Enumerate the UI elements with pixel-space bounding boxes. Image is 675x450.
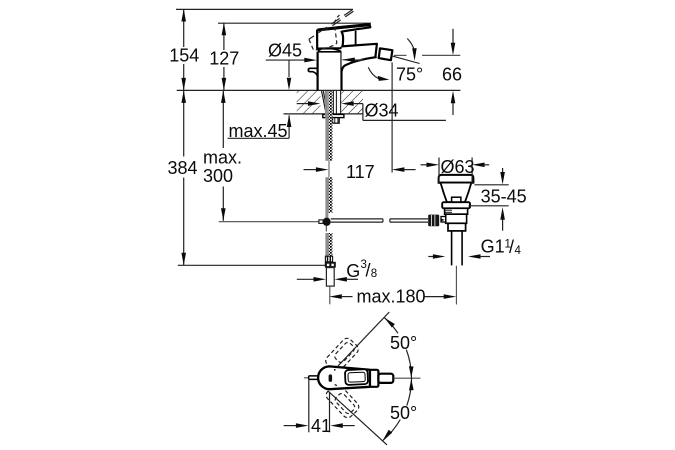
svg-text:75°: 75° xyxy=(396,64,423,84)
svg-text:8: 8 xyxy=(371,268,377,280)
svg-text:/: / xyxy=(366,261,371,281)
flow direction arc arrow under spout xyxy=(368,67,389,81)
bottom view: angle arc segments xyxy=(383,317,412,440)
braided hose segment 3 xyxy=(325,233,328,256)
dimension max.180 xyxy=(329,294,456,299)
ball joint link block xyxy=(319,220,323,224)
bottom view: pivot slot xyxy=(329,374,333,382)
dimension 384 xyxy=(181,90,186,265)
hose break centerline xyxy=(328,161,330,177)
bottom view: arc end arrowhead lower xyxy=(383,430,392,441)
bottom view: lever window outer xyxy=(345,369,368,385)
centerline below ball xyxy=(325,226,327,232)
mounting washer xyxy=(323,114,344,117)
bottom view: dashed handle position lower xyxy=(324,382,361,419)
bottom view: centerline left xyxy=(304,377,309,379)
horizontal actuating rod left segment xyxy=(331,219,383,222)
mounting nut xyxy=(333,118,340,124)
svg-text:154: 154 xyxy=(169,46,199,66)
dimension G3/8 xyxy=(297,277,358,282)
extension line waste centerline xyxy=(455,266,457,305)
bottom view: 50° line lower xyxy=(328,391,387,445)
faucet: body column xyxy=(318,52,342,91)
faucet: raised handle edge double dashed xyxy=(309,10,354,40)
svg-text:/: / xyxy=(509,237,514,257)
svg-text:4: 4 xyxy=(515,245,522,257)
reference line 127 level xyxy=(218,22,371,24)
extension line from aerator down xyxy=(391,62,393,172)
faucet: dashed raised-handle outline xyxy=(309,15,340,50)
faucet: aerator square xyxy=(379,48,393,60)
waste valve: lug xyxy=(452,197,461,202)
ball joint xyxy=(323,218,331,226)
svg-text:66: 66 xyxy=(442,64,462,84)
waste valve: mounting flange xyxy=(442,202,470,208)
svg-text:G1: G1 xyxy=(481,237,505,257)
G3/8 tube xyxy=(326,268,334,287)
horizontal actuating rod right segment xyxy=(390,219,428,222)
svg-text:Ø45: Ø45 xyxy=(268,41,302,61)
reference line top (154 level) xyxy=(176,8,353,10)
G3/8 hose end ribs xyxy=(325,256,332,262)
faucet: lever top edge accent xyxy=(318,25,370,30)
svg-text:50°: 50° xyxy=(390,403,417,423)
counter bottom line xyxy=(284,113,363,115)
counter top line xyxy=(177,89,461,91)
faucet: pop-up rod paddle on body left xyxy=(308,68,317,76)
counter hatching left of hole xyxy=(297,91,321,114)
svg-text:384: 384 xyxy=(167,158,197,178)
counter hatching right of hole xyxy=(341,91,363,114)
waste valve: top flange xyxy=(439,175,474,183)
svg-text:max.180: max.180 xyxy=(357,287,426,307)
svg-text:50°: 50° xyxy=(390,333,417,353)
svg-text:127: 127 xyxy=(209,49,239,69)
pull rod horizontal reference line xyxy=(219,221,320,223)
waste valve: main body xyxy=(446,214,467,223)
bottom view: handle root block xyxy=(370,370,378,387)
svg-text:max.: max. xyxy=(203,148,242,168)
75° leader arc with arrow xyxy=(407,39,416,61)
dimension 154 xyxy=(181,9,186,90)
dimension 41 xyxy=(284,380,355,433)
bottom view: 50° line upper xyxy=(337,312,389,367)
waste valve: upper band xyxy=(445,208,468,214)
faucet: handle base step edge xyxy=(355,31,357,47)
pull rod gray segment 1 xyxy=(325,118,328,161)
pull rod gray segment 2 xyxy=(325,177,328,213)
bottom view: lever window inner xyxy=(348,372,365,382)
dimension 66 xyxy=(394,29,460,115)
hole hoses curves xyxy=(322,91,327,110)
dimension 127 xyxy=(222,23,227,91)
braided hose segment 1 xyxy=(328,118,332,161)
waste valve: knurled knob xyxy=(428,215,439,227)
bottom view: small dot xyxy=(334,369,336,371)
pull rod into ball xyxy=(325,213,328,218)
dimension 117 xyxy=(304,167,416,172)
svg-text:G: G xyxy=(346,261,360,281)
waste valve: lower section xyxy=(448,223,466,231)
dimension 35-45 xyxy=(468,168,508,231)
waste valve: boss arrow detail xyxy=(441,219,445,222)
bottom view: bottom notch xyxy=(335,385,337,386)
pull rod (gray) through counter xyxy=(325,91,328,118)
bottom view: arc end arrowhead upper xyxy=(385,318,395,328)
faucet: collar under cap xyxy=(318,49,342,52)
centerline below tube xyxy=(329,286,331,304)
faucet: lever handle and cap xyxy=(317,25,370,49)
waste valve: rod boss xyxy=(441,217,446,223)
waste valve: tailpipe xyxy=(452,231,463,266)
bottom view: arc hourglass arrowheads at centerline xyxy=(409,366,414,378)
threaded shank white bands xyxy=(333,91,340,114)
bottom view: handle grip xyxy=(378,374,393,383)
braided hose segment 2 xyxy=(328,177,332,213)
75° angle slant line xyxy=(393,56,420,63)
braided hose through counter xyxy=(328,91,332,118)
dimension Ø34 box xyxy=(297,101,446,120)
svg-text:Ø34: Ø34 xyxy=(365,101,399,121)
dimension G1 1/4 xyxy=(428,254,490,259)
svg-text:41: 41 xyxy=(311,416,331,436)
svg-text:117: 117 xyxy=(346,162,375,182)
svg-text:Ø63: Ø63 xyxy=(441,157,475,177)
svg-text:max.45: max.45 xyxy=(229,121,288,141)
bottom view: body capsule xyxy=(318,366,370,389)
reference line 384 bottom xyxy=(178,264,325,266)
svg-text:300: 300 xyxy=(203,166,233,186)
svg-text:35-45: 35-45 xyxy=(481,186,527,206)
bottom view: dashed handle position upper xyxy=(324,336,361,373)
dimension max.300 xyxy=(221,90,226,220)
bottom view: centerline right xyxy=(394,377,421,379)
waste valve: tapered neck xyxy=(441,183,472,203)
faucet: shadow wedge under cap left xyxy=(318,49,322,52)
G3/8 nut xyxy=(325,262,336,268)
bottom view: pull rod stub xyxy=(309,376,320,380)
faucet: spout beam xyxy=(342,44,377,71)
label box max.45 xyxy=(228,115,292,139)
dimension Ø63 xyxy=(421,158,490,185)
